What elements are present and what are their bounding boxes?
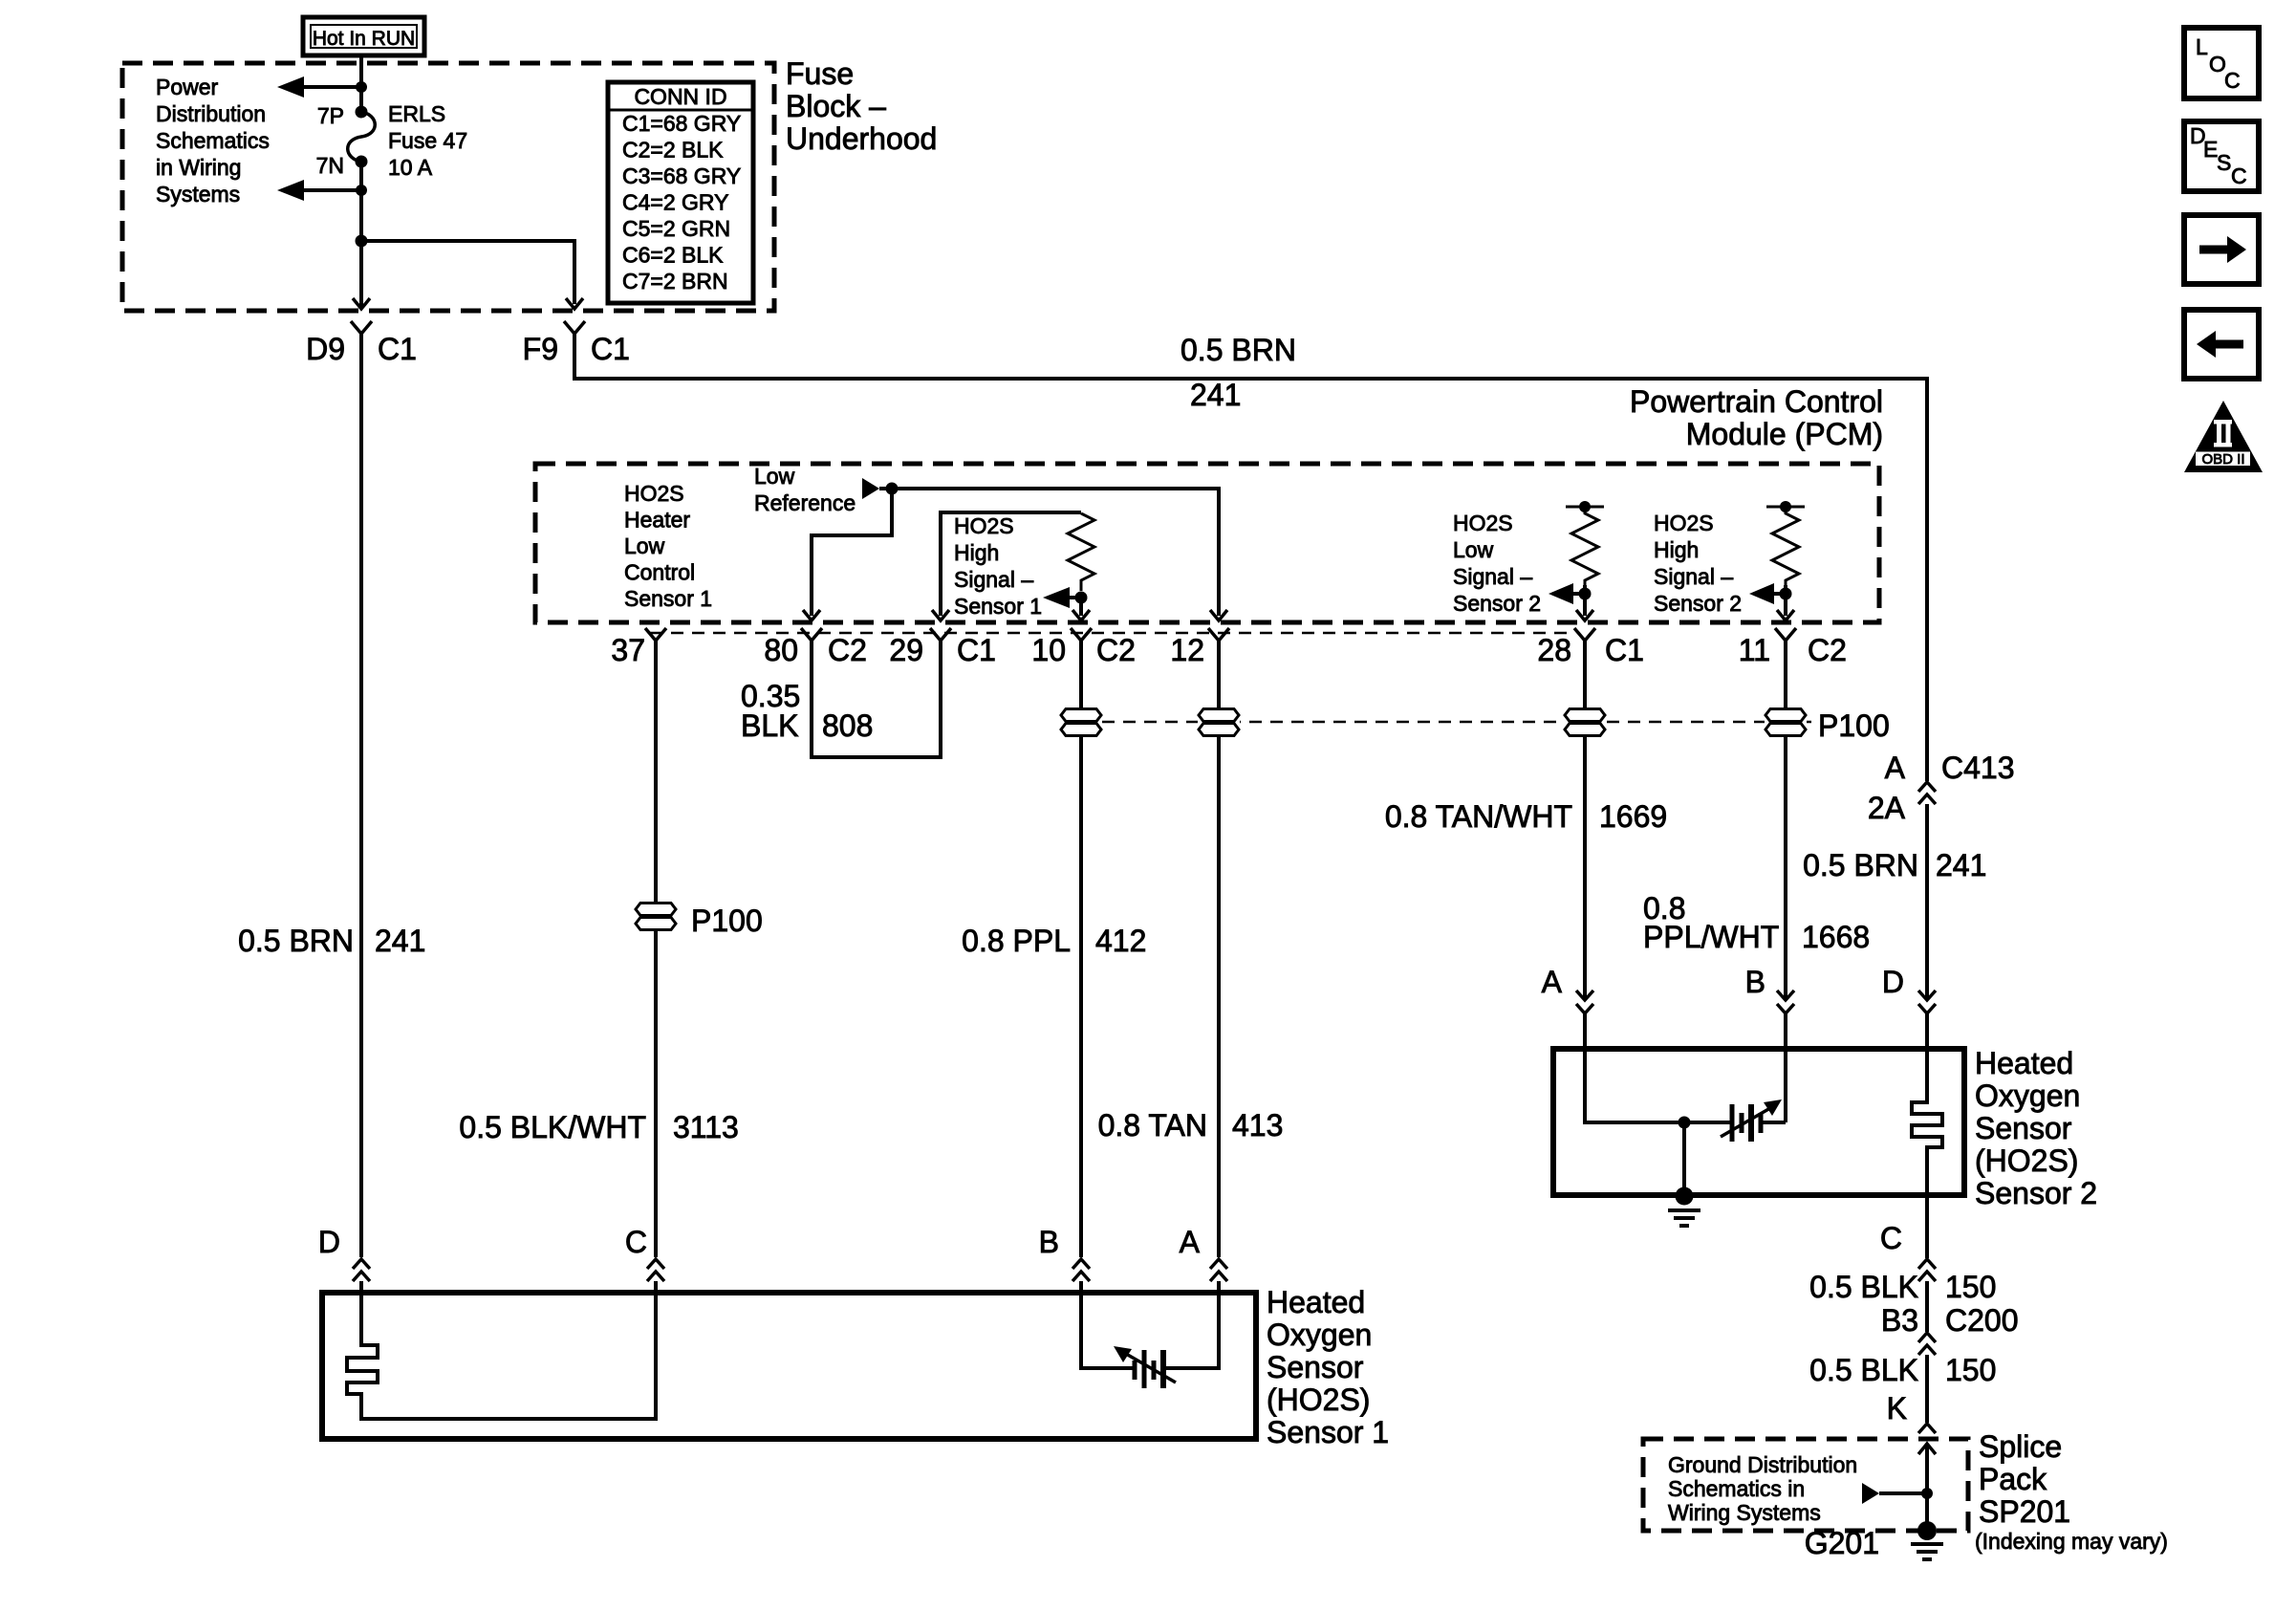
wire: branch over to F9 drop: [361, 241, 574, 304]
svg-text:Oxygen: Oxygen: [1267, 1317, 1372, 1352]
svg-text:P100: P100: [1818, 708, 1890, 743]
svg-text:B3: B3: [1881, 1303, 1918, 1338]
label: Power Distribution Schematics in Wiring Systems: [156, 75, 270, 207]
wire: pin 11 down to sensor 2 pin B: [1784, 669, 1787, 998]
svg-text:0.5 BLK/WHT: 0.5 BLK/WHT: [459, 1110, 646, 1144]
svg-text:HO2S: HO2S: [624, 481, 684, 506]
heater: sensor 2 heating element: [1912, 1049, 1942, 1193]
arrows+chevrons: wires entering sensor 2 (A,B,D): [1576, 991, 1936, 1049]
svg-text:(HO2S): (HO2S): [1975, 1143, 2078, 1178]
svg-text:0.5 BRN: 0.5 BRN: [1180, 333, 1296, 367]
wire: sensor 1 A lead down: [1165, 1293, 1219, 1368]
svg-text:241: 241: [1190, 378, 1241, 412]
svg-text:413: 413: [1232, 1108, 1283, 1143]
wire: junction down to pin 10: [1079, 598, 1083, 616]
svg-text:C413: C413: [1941, 751, 2015, 785]
inline connector C413 (double chevron up): [1918, 782, 1936, 804]
heater: sensor 1 heating element (D lead): [347, 1293, 656, 1419]
label: HO2S High Signal - Sensor 1: [954, 513, 1042, 619]
svg-text:Sensor 1: Sensor 1: [1267, 1415, 1389, 1449]
ground: sensor 2 internal ground: [1668, 1187, 1700, 1227]
svg-text:C: C: [625, 1225, 647, 1259]
junction: branch to F9: [356, 235, 368, 248]
label: 0.5 BLK 150 (lower): [1809, 1353, 1996, 1387]
svg-text:Low: Low: [1453, 537, 1494, 562]
wire: pin 37 down to sensor 1 pin C: [654, 669, 658, 1257]
label: 0.5 BRN 241 (left run): [238, 924, 425, 958]
svg-text:7N: 7N: [316, 153, 344, 178]
svg-text:High: High: [954, 540, 999, 565]
connector Y at F9: [564, 321, 585, 356]
label: Fuse Block - Underhood: [786, 56, 937, 156]
label: Heated Oxygen Sensor (HO2S) Sensor 2: [1975, 1046, 2097, 1210]
svg-text:F9: F9: [523, 332, 558, 366]
battery: sensor 2 sensing element (variable): [1721, 1099, 1786, 1142]
label: Powertrain Control Module (PCM): [1630, 384, 1883, 451]
wire: pin 28 down to sensor 2 pin A: [1583, 669, 1587, 998]
power feed tag "Hot In RUN": [303, 17, 424, 55]
node: sensor2 low signal junction + left arrow: [1549, 583, 1592, 616]
svg-text:Pack: Pack: [1979, 1462, 2047, 1496]
wire: sensor 2 A lead down and across: [1585, 1049, 1730, 1122]
wire: sensor 2 B lead: [1784, 1049, 1787, 1122]
svg-text:150: 150: [1945, 1353, 1996, 1387]
svg-text:Heated: Heated: [1267, 1285, 1365, 1319]
svg-text:808: 808: [822, 708, 873, 743]
svg-text:10: 10: [1031, 633, 1066, 667]
svg-text:Signal –: Signal –: [1654, 564, 1733, 589]
svg-text:Reference: Reference: [754, 490, 856, 515]
svg-text:241: 241: [1936, 848, 1986, 882]
node: sensor 2 signal junction: [1679, 1117, 1691, 1129]
wire: junction to ground dot: [1682, 1122, 1686, 1193]
svg-text:Power: Power: [156, 75, 219, 99]
icon: forward arrow box: [2184, 215, 2259, 284]
svg-text:C5=2 GRN: C5=2 GRN: [622, 216, 730, 241]
svg-text:Splice: Splice: [1979, 1429, 2062, 1464]
svg-text:Underhood: Underhood: [786, 121, 937, 156]
label: 0.8 PPL 412: [962, 924, 1146, 958]
connector Y at pin 11: [1775, 628, 1796, 669]
wire: low reference to pin 80: [812, 489, 892, 616]
svg-text:80: 80: [764, 633, 798, 667]
svg-text:PPL/WHT: PPL/WHT: [1643, 920, 1779, 954]
wire: 808 loop pin 80 to pin 29: [812, 669, 941, 757]
wire: C200 to K: [1925, 1355, 1929, 1423]
label: Low Reference: [754, 464, 856, 515]
inline connector P100 on pin 37 wire + label: [635, 902, 763, 938]
svg-text:3113: 3113: [673, 1110, 739, 1144]
svg-text:C1: C1: [591, 332, 630, 366]
connector Y at D9: [351, 321, 372, 356]
svg-text:Heated: Heated: [1975, 1046, 2073, 1080]
svg-text:K: K: [1887, 1391, 1907, 1426]
svg-text:Systems: Systems: [156, 182, 240, 207]
label: HO2S Low Signal - Sensor 2: [1453, 511, 1541, 616]
svg-text:C1=68 GRY: C1=68 GRY: [622, 111, 741, 136]
svg-text:Ground Distribution: Ground Distribution: [1668, 1452, 1857, 1477]
wire: pin 29 internal box to resistor (HO2S high signal sensor 1): [941, 512, 1081, 616]
resistor: HO2S high signal sensor 1: [1068, 513, 1094, 591]
label: Splice Pack SP201: [1979, 1429, 2070, 1529]
label: HO2S High Signal - Sensor 2: [1654, 511, 1742, 616]
node: low reference feed (triangle + junction): [862, 478, 899, 499]
svg-text:L: L: [2196, 34, 2208, 59]
svg-text:C1: C1: [957, 633, 996, 667]
svg-text:ERLS: ERLS: [388, 101, 445, 126]
svg-text:Low: Low: [624, 533, 665, 558]
arrow: F9 wire exits fuse block (down): [566, 298, 583, 309]
CONN ID table: [608, 82, 753, 303]
chevron at K: [1918, 1424, 1936, 1433]
svg-text:Fuse: Fuse: [786, 56, 854, 91]
svg-text:C: C: [2231, 163, 2247, 188]
wire: F9 run right across top (0.5 BRN 241): [574, 356, 1927, 781]
svg-text:C200: C200: [1945, 1303, 2019, 1338]
svg-text:Low: Low: [754, 464, 795, 489]
inline connectors at sensor 1 pins (double chevron up): [353, 1259, 1227, 1293]
icon: back arrow box: [2184, 310, 2259, 379]
svg-text:HO2S: HO2S: [1453, 511, 1513, 535]
svg-text:0.8 TAN: 0.8 TAN: [1098, 1108, 1207, 1143]
node: splice SP201 (triangle + junction): [1862, 1483, 1933, 1504]
labels: pin numbers row: [611, 633, 1847, 667]
svg-text:Oxygen: Oxygen: [1975, 1078, 2080, 1113]
svg-text:A: A: [1885, 751, 1906, 785]
svg-text:Fuse 47: Fuse 47: [388, 128, 467, 153]
label: A C413 / 2A: [1868, 751, 2015, 825]
svg-text:D9: D9: [306, 332, 345, 366]
svg-text:Block –: Block –: [786, 89, 886, 123]
labels: sensor 1 pins D C B A: [318, 1225, 1201, 1259]
svg-text:0.8 PPL: 0.8 PPL: [962, 924, 1071, 958]
wire: D9 run down left side (0.5 BRN 241): [359, 356, 363, 1257]
ground G201: [1911, 1521, 1943, 1559]
svg-text:0.5 BLK: 0.5 BLK: [1809, 1353, 1918, 1387]
inline connector P100 on pin 12 wire: [1198, 708, 1240, 737]
HO2S sensor 1 box: [322, 1293, 1256, 1439]
svg-text:P100: P100: [691, 903, 763, 938]
icon: DESC box: [2184, 121, 2259, 191]
inline connector P100 on pin 11 wire + label: [1765, 708, 1890, 743]
arrows: wires entering PCM connector (pins 80,29,10,12,28,11): [803, 610, 1794, 620]
resistor: HO2S low signal sensor 2 (pin 28) with top bar: [1566, 501, 1604, 587]
svg-text:High: High: [1654, 537, 1699, 562]
svg-text:C6=2 BLK: C6=2 BLK: [622, 243, 724, 268]
wire: hot feed vertical from Hot In RUN into fuse block: [359, 55, 363, 112]
svg-text:Sensor: Sensor: [1975, 1111, 2072, 1145]
wire: low reference to pin 12: [892, 489, 1219, 616]
svg-text:C1: C1: [1605, 633, 1644, 667]
label: B3 C200: [1881, 1303, 2019, 1338]
svg-text:D: D: [318, 1225, 340, 1259]
svg-text:Sensor 1: Sensor 1: [954, 594, 1042, 619]
label: 0.8 TAN 413: [1098, 1108, 1284, 1143]
inline connector P100 on pin 10 wire: [1060, 708, 1102, 737]
svg-text:Signal –: Signal –: [1453, 564, 1532, 589]
svg-text:HO2S: HO2S: [954, 513, 1014, 538]
svg-text:0.5 BRN: 0.5 BRN: [1803, 848, 1918, 882]
svg-text:Sensor 2: Sensor 2: [1453, 591, 1541, 616]
svg-text:C7=2 BRN: C7=2 BRN: [622, 269, 728, 294]
svg-text:C: C: [1880, 1221, 1902, 1255]
P100 dashed link line: [1081, 721, 1786, 724]
svg-text:OBD II: OBD II: [2201, 451, 2244, 468]
svg-text:HO2S: HO2S: [1654, 511, 1714, 535]
svg-text:Sensor 2: Sensor 2: [1975, 1176, 2097, 1210]
svg-text:in Wiring: in Wiring: [156, 155, 241, 180]
label: Heated Oxygen Sensor (HO2S) Sensor 1: [1267, 1285, 1389, 1449]
svg-text:C3=68 GRY: C3=68 GRY: [622, 163, 741, 188]
svg-text:CONN ID: CONN ID: [634, 84, 726, 109]
wire: branch to power distribution (lower) with junction: [277, 180, 367, 201]
svg-text:Module (PCM): Module (PCM): [1686, 417, 1883, 451]
svg-text:SP201: SP201: [1979, 1494, 2070, 1529]
battery: sensor 1 sensing element (variable): [1114, 1346, 1176, 1388]
connector Y at pin 29: [930, 628, 951, 669]
svg-text:Signal –: Signal –: [954, 567, 1033, 592]
PCM connector face thin dashed line: [650, 632, 1575, 635]
node: sensor1 high signal junction + left arrow: [1043, 587, 1088, 608]
svg-text:Wiring Systems: Wiring Systems: [1668, 1500, 1821, 1525]
svg-text:D: D: [1882, 965, 1904, 999]
svg-text:B: B: [1039, 1225, 1059, 1259]
svg-text:Distribution: Distribution: [156, 101, 266, 126]
connector Y at pin 10: [1071, 628, 1092, 669]
svg-text:Sensor 1: Sensor 1: [624, 586, 712, 611]
svg-text:1668: 1668: [1802, 920, 1870, 954]
HO2S sensor 2 box: [1553, 1049, 1964, 1195]
svg-text:Sensor: Sensor: [1267, 1350, 1364, 1384]
inline connector C200 (double chevron up): [1918, 1333, 1936, 1355]
labels: sensor 2 pins A B D: [1542, 965, 1904, 999]
svg-text:11: 11: [1739, 633, 1770, 667]
svg-text:0.8 TAN/WHT: 0.8 TAN/WHT: [1385, 799, 1572, 834]
label: 0.8 PPL/WHT 1668: [1643, 891, 1870, 954]
svg-text:C2: C2: [828, 633, 867, 667]
connector Y at pin 12: [1208, 628, 1229, 669]
svg-text:10 A: 10 A: [388, 155, 433, 180]
label: Ground Distribution Schematics in Wiring Systems: [1668, 1452, 1857, 1525]
connector Y at pin 28: [1574, 628, 1595, 669]
wire: sensor 2 C lead below box: [1925, 1195, 1929, 1258]
svg-text:Powertrain Control: Powertrain Control: [1630, 384, 1883, 419]
label: 0.5 BRN 241 (right run): [1803, 848, 1986, 882]
wire: sensor 1 B lead down: [1081, 1293, 1133, 1368]
svg-text:S: S: [2217, 150, 2231, 175]
inline connector P100 on pin 28 wire: [1564, 708, 1606, 737]
label: 0.8 TAN/WHT 1669: [1385, 799, 1667, 834]
svg-text:1669: 1669: [1599, 799, 1667, 834]
arrow: wire enters splice pack (up): [1918, 1444, 1936, 1531]
svg-text:0.5 BLK: 0.5 BLK: [1809, 1270, 1918, 1304]
svg-text:C2=2 BLK: C2=2 BLK: [622, 138, 724, 163]
fuse ERLS Fuse 47 10A (terminals 7P/7N): [348, 106, 376, 168]
svg-text:Schematics in: Schematics in: [1668, 1476, 1805, 1501]
splice pack dashed box: [1643, 1439, 1968, 1531]
inline connector at C (double chevron up): [1918, 1259, 1936, 1281]
svg-text:29: 29: [889, 633, 923, 667]
node: sensor2 high signal junction + left arrow: [1749, 583, 1792, 616]
svg-text:A: A: [1180, 1225, 1201, 1259]
icon: OBD II triangle: [2184, 401, 2263, 472]
label: HO2S Heater Low Control Sensor 1: [624, 481, 712, 611]
wire: right run continues below C413: [1925, 804, 1929, 999]
svg-text:28: 28: [1537, 633, 1571, 667]
PCM dashed box: [535, 464, 1879, 622]
label: 0.5 BLK/WHT 3113: [459, 1110, 738, 1144]
svg-text:412: 412: [1095, 924, 1146, 958]
svg-text:BLK: BLK: [741, 708, 798, 743]
svg-text:(Indexing may vary): (Indexing may vary): [1975, 1529, 2168, 1554]
svg-text:150: 150: [1945, 1270, 1996, 1304]
svg-text:12: 12: [1170, 633, 1204, 667]
svg-text:2A: 2A: [1868, 791, 1906, 825]
svg-text:C1: C1: [378, 332, 417, 366]
svg-text:241: 241: [375, 924, 425, 958]
fuse block underhood dashed box: [122, 63, 774, 311]
svg-text:Heater: Heater: [624, 508, 690, 533]
svg-text:C2: C2: [1096, 633, 1136, 667]
svg-text:C: C: [2224, 68, 2241, 93]
svg-text:B: B: [1745, 965, 1765, 999]
svg-text:0.5 BRN: 0.5 BRN: [238, 924, 354, 958]
label: 0.35 BLK 808: [741, 679, 873, 743]
svg-text:Hot In RUN: Hot In RUN: [313, 28, 415, 50]
svg-text:Sensor 2: Sensor 2: [1654, 591, 1742, 616]
svg-text:G201: G201: [1805, 1526, 1879, 1560]
wire: pin 10 down to sensor 1 pin B: [1079, 669, 1083, 1257]
icon: LOC box: [2184, 28, 2259, 98]
svg-text:A: A: [1542, 965, 1563, 999]
wire: pin 12 down to sensor 1 pin A: [1217, 669, 1221, 1257]
svg-text:Control: Control: [624, 560, 695, 585]
label: ERLS Fuse 47 10 A: [388, 101, 467, 180]
svg-text:C2: C2: [1808, 633, 1847, 667]
connector Y at pin 37: [645, 628, 666, 669]
svg-text:(HO2S): (HO2S): [1267, 1382, 1370, 1417]
svg-text:Schematics: Schematics: [156, 128, 270, 153]
connector Y at pin 80: [801, 628, 822, 669]
resistor: HO2S high signal sensor 2 (pin 11) with top bar: [1766, 501, 1805, 587]
svg-text:C4=2 GRY: C4=2 GRY: [622, 190, 728, 215]
arrow: D9 wire exits fuse block (down): [353, 298, 370, 309]
svg-text:37: 37: [611, 633, 645, 667]
svg-text:7P: 7P: [317, 103, 344, 128]
label: 0.5 BLK 150 (upper): [1809, 1270, 1996, 1304]
wire: branch to power distribution (upper) with junction: [277, 76, 367, 98]
